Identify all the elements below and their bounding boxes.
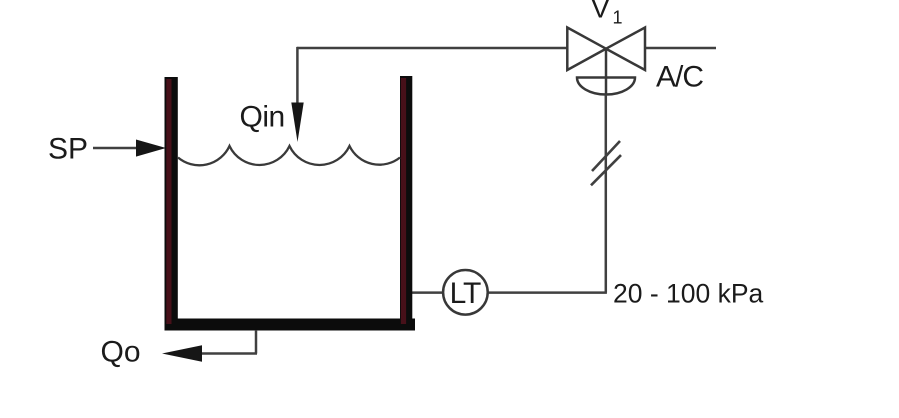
level transmitter LT circle [443,270,488,315]
valve V1 body (bowtie) [567,28,645,71]
Qo arrowhead [162,345,202,361]
actuator diaphragm (dome) [577,78,635,95]
wire: vertical drop to Qin arrow [296,47,299,106]
SP arrow line [93,147,137,150]
pipe from valve to tank (horizontal) [297,47,567,50]
Qo outlet horizontal wire [201,352,257,355]
svg-text:A/C: A/C [656,61,703,94]
Qin flow arrowhead [291,103,303,143]
tank right wall [400,76,412,330]
signal slash 2 [591,155,621,185]
tank bottom (thick) [165,319,416,331]
water surface (wavy) [178,146,400,165]
signal line LT to corner [488,291,607,294]
pipe inlet right of valve [645,47,716,50]
svg-text:V: V [591,0,610,24]
svg-text:1: 1 [613,8,623,28]
tank left wall [165,77,178,330]
pneumatic signal line (vertical) [605,95,608,293]
svg-text:SP: SP [48,133,88,166]
svg-text:Qo: Qo [101,336,141,369]
valve stem [605,49,608,95]
svg-text:20 - 100 kPa: 20 - 100 kPa [613,279,764,309]
SP arrowhead [136,140,166,157]
wire: tank to LT [412,291,443,294]
signal slash 1 [592,141,620,171]
Qo outlet drop wire [255,330,258,354]
svg-text:LT: LT [450,277,481,310]
right wall maroon stripe [401,78,406,324]
svg-text:Qin: Qin [240,101,285,134]
left wall maroon stripe [166,79,171,324]
